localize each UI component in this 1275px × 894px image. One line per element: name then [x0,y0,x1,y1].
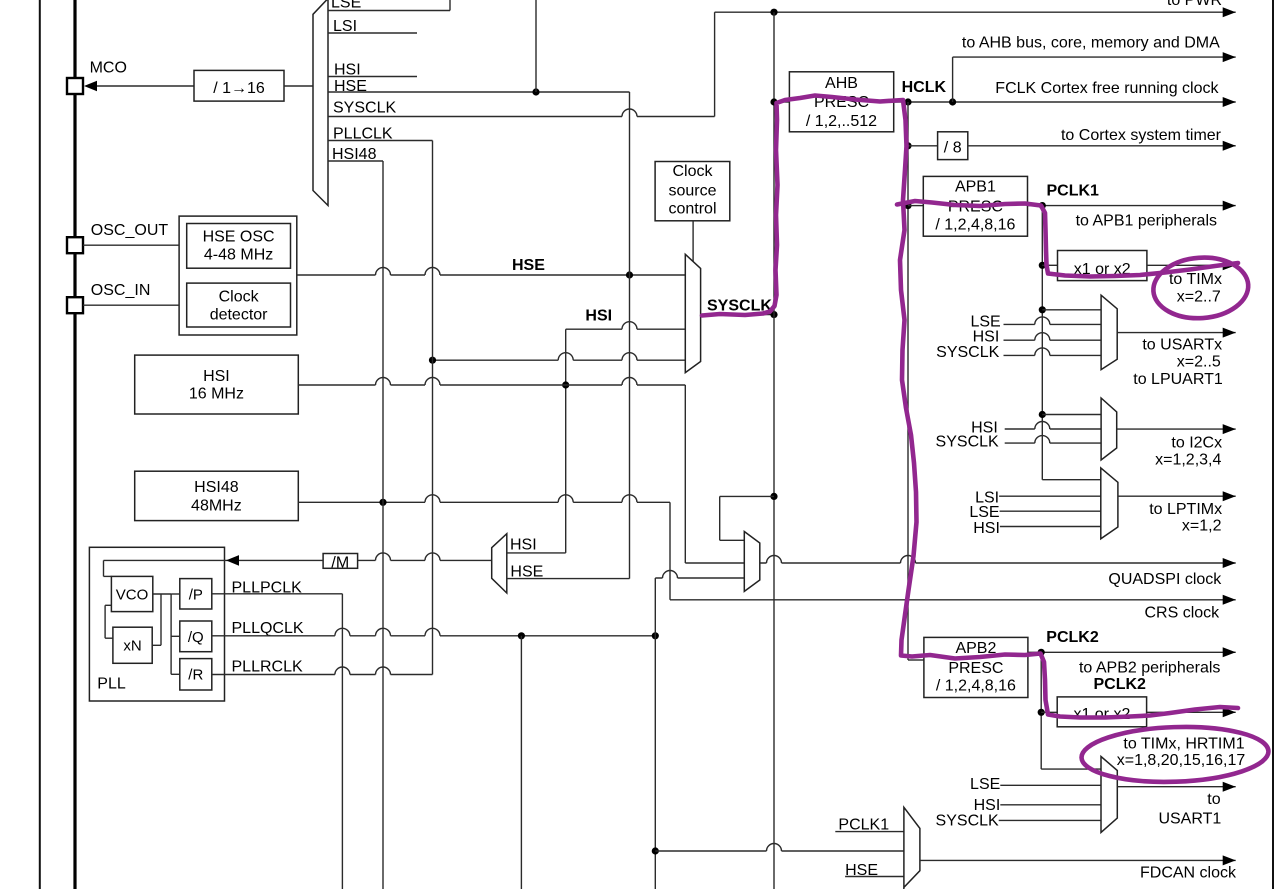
svg-text:HSI: HSI [973,329,1000,346]
node x1x2 tap [1039,262,1046,269]
svg-text:/R: /R [188,667,203,684]
label x=1,2 [1182,517,1222,534]
svg-text:x=1,2: x=1,2 [1182,517,1222,534]
svg-text:HSE: HSE [510,563,543,580]
svg-text:to USARTx: to USARTx [1142,337,1222,354]
node HSE riser junction [532,88,539,95]
wire HSI link column [565,329,567,553]
node PCLK1 junction [1039,202,1046,209]
svg-text:to TIMx, HRTIM1: to TIMx, HRTIM1 [1123,735,1244,752]
block HSI48 48MHz [135,471,299,520]
svg-text:SYSCLK: SYSCLK [936,434,999,451]
node HSE column junction [626,271,633,278]
node /8 tap [904,142,911,149]
wire HSE column [629,92,631,579]
svg-text:FCLK Cortex free running clock: FCLK Cortex free running clock [995,80,1219,97]
svg-text:48MHz: 48MHz [191,497,242,514]
svg-text:HSE OSC: HSE OSC [203,228,275,245]
wire SYSCLK jog to QUADSPI mux [720,496,774,540]
node QUADSPI tap [770,493,777,500]
svg-text:PCLK2: PCLK2 [1046,629,1099,646]
label to Cortex system timer [1061,127,1222,144]
svg-text:FDCAN clock: FDCAN clock [1140,864,1237,881]
wire HSI stub [328,76,417,78]
label to (USART1) [1207,791,1220,808]
block APB2 PRESC [924,637,1028,697]
node SYSCLK junction [770,311,777,318]
svg-text:Clock: Clock [219,288,260,305]
wire SYSCLK input [328,109,715,117]
wire PLLPCLK [212,593,343,595]
label to I2Cx [1171,434,1222,451]
svg-text:/ 1,2,4,8,16: / 1,2,4,8,16 [936,678,1016,695]
svg-text:APB1: APB1 [955,179,996,196]
wire LSE riser [449,0,451,11]
label SYSCLK (I2C mux) [936,434,999,451]
wire HSE stub FDCAN [845,876,904,878]
wire PCLK1 stub FDCAN [835,831,904,833]
block VCO [111,576,152,611]
svg-text:to LPUART1: to LPUART1 [1133,371,1223,388]
label HSE (bold net) [512,257,545,274]
wire x1x2 to TIMx [1147,260,1236,270]
svg-text:to AHB bus, core, memory and D: to AHB bus, core, memory and DMA [962,35,1220,52]
svg-text:control: control [668,201,716,218]
wire PCLK1 to LPTIM mux [1042,479,1101,481]
wire HSI main line [298,378,685,385]
svg-text:PLLRCLK: PLLRCLK [232,659,303,676]
svg-text:to APB1 peripherals: to APB1 peripherals [1076,213,1217,230]
wire USART1 out [1117,782,1235,792]
svg-text:HSI: HSI [510,537,537,554]
wire HSI stub USART [1004,333,1102,340]
label SYSCLK (bold net) [707,298,772,315]
svg-text:source: source [668,183,716,200]
block AHB PRESC [789,72,893,132]
wire PLLQ branch column [520,636,522,889]
wire control to mux [692,221,694,262]
wire HSE main line [297,268,686,276]
label HSI (USART mux) [973,329,1000,346]
wire LSI stub [328,32,417,34]
label PCLK2 second (bold) [1094,676,1147,693]
wire HCLK to APB2 presc [908,659,924,661]
wire HSI48 column [382,161,384,889]
label OSC_IN [91,282,151,299]
svg-text:Clock: Clock [672,163,713,180]
wire PLLCLK to SYSCLK mux [433,353,686,360]
wire SYSCLK output [701,314,774,316]
svg-text:HSI: HSI [973,520,1000,537]
wire PLLQ column [654,578,656,889]
svg-text:/ 8: / 8 [944,139,962,156]
label PLLQCLK [232,620,304,637]
wire VCO-xN feedback left [105,605,113,638]
label LSE (MCO mux input) [331,0,361,12]
mux MCO selector [313,0,328,206]
wire OSC_OUT to HSE group [83,244,179,246]
svg-text:PCLK2: PCLK2 [1094,676,1147,693]
node AHB input junction [770,98,777,105]
block APB1 PRESC [923,176,1027,236]
svg-text:HSI48: HSI48 [332,146,377,163]
label USART1 [1158,811,1221,828]
label LSI (LPTIM mux) [975,490,999,507]
svg-text:HSI: HSI [585,308,612,325]
wire SYSCLK stub USART1 [999,819,1101,821]
wire PCLK1 to I2C mux [1042,414,1101,416]
wire SYSCLK column [773,12,775,889]
label PLLRCLK [232,659,303,676]
wire OSC_IN to HSE group [83,304,179,306]
label HSE (PLL mux) [510,563,543,580]
node x1x2 APB2 tap [1038,709,1045,716]
svg-text:/ 1→16: / 1→16 [213,80,265,97]
svg-text:QUADSPI clock: QUADSPI clock [1108,571,1222,588]
wire LPTIMx out [1118,491,1236,501]
annotation circle to TIMx HRTIM1 [1081,724,1270,785]
block xN [113,627,152,663]
label LSE (USART1 mux) [970,776,1000,793]
wire QUADSPI clock out [760,556,1236,568]
wire I2Cx out [1117,424,1236,434]
svg-text:/Q: /Q [188,629,204,646]
wire PLLRCLK [212,667,433,675]
wire PLLQCLK [212,628,656,635]
svg-text:USART1: USART1 [1158,811,1221,828]
label LSE (LPTIM mux) [969,504,999,521]
node PCLK2 junction [1038,649,1045,656]
svg-text:HSI: HSI [974,797,1001,814]
wire PLL input feedback [104,560,112,576]
divider box /M [323,554,358,572]
wire PLL source mux to /M [358,553,492,560]
label HSI (bold net) [585,308,612,325]
label to LPTIMx [1149,501,1222,518]
wire SYSCLK stub I2C [1005,436,1101,443]
label to TIMx HRTIM1 [1123,735,1244,752]
label PLLCLK (MCO mux) [333,126,393,143]
wire HSI to SYSCLK mux [566,322,686,329]
pin OSC_IN [67,297,83,313]
wire /M to PLL with arrow [104,555,324,566]
node APB1 tap [904,202,911,209]
annotation circle to TIMx x=2..7 [1151,254,1250,321]
node PLLQCLK branch 1 [518,632,525,639]
divider /R [180,659,212,690]
svg-text:to TIMx: to TIMx [1169,271,1222,288]
label HSI (LPTIM mux) [973,520,1000,537]
mux USART1 select [1101,757,1117,833]
wire to PWR [715,7,1236,17]
block x1 or x2 (APB2) [1057,697,1146,727]
wire VCO output bus [152,594,171,674]
svg-text:to I2Cx: to I2Cx [1171,434,1222,451]
label HSI (I2C mux) [971,420,998,437]
wire HCLK column [907,102,909,660]
label to TIMx [1169,271,1222,288]
svg-text:x=1,2,3,4: x=1,2,3,4 [1155,452,1221,469]
label PCLK1 (bold) [1047,182,1100,199]
wire SYSCLK riser to PWR [714,12,716,116]
label HCLK (bold) [902,79,947,96]
wire HSI stub I2C [1005,422,1101,429]
svg-text:LSE: LSE [970,776,1000,793]
svg-text:to: to [1207,791,1220,808]
label x=1,2,3,4 [1155,452,1221,469]
label HSE (FDCAN) [845,862,878,879]
label PLLPCLK [232,580,303,597]
label to LPUART1 [1133,371,1223,388]
label LSI [333,18,357,35]
wire HSI48 main line [298,495,670,502]
svg-text:SYSCLK: SYSCLK [333,100,396,117]
wire HSI stub [1000,526,1101,528]
wire HSI feed to QUADSPI mux [685,385,744,563]
svg-text:x1 or x2: x1 or x2 [1073,706,1130,723]
block Clock detector [187,283,291,327]
mux LPTIMx select [1101,468,1118,539]
label HSI (PLL mux) [510,537,537,554]
svg-text:CRS clock: CRS clock [1145,604,1221,621]
node PLLQCLK branch 2 [652,632,659,639]
divider /P [180,579,212,609]
mux SYSCLK select [685,254,700,372]
wire HCLK to /8 [908,145,938,147]
wire PLLCLK column [432,141,434,675]
wire LSE stub [1000,510,1101,512]
label HSE (MCO mux) [334,78,367,95]
wire HCLK line [894,97,1236,107]
mux I2Cx select [1101,398,1117,460]
node HSI main junction [562,381,569,388]
label FCLK [995,80,1219,97]
label to AHB bus core memory DMA [962,35,1220,52]
wire PCLK2 to USART1 mux [1041,768,1101,770]
svg-text:to LPTIMx: to LPTIMx [1149,501,1222,518]
node PLLCLK tap junction [429,357,436,364]
wire bus to /Q [171,635,180,637]
svg-text:4-48 MHz: 4-48 MHz [204,247,273,264]
annotation highlight SYSCLK-HCLK-APB2 path [702,96,1238,718]
divider box / 1→16 [194,70,284,101]
mux PLL source select [492,534,507,593]
pin OSC_OUT [67,237,83,253]
label HSI (MCO mux) [334,62,361,79]
wire riser to AHB bus arrow [952,57,954,102]
wire HSI48 to CRS riser [669,502,671,600]
label SYSCLK (MCO mux) [333,100,396,117]
svg-text:MCO: MCO [90,60,127,77]
svg-text:/ 1,2,..512: / 1,2,..512 [806,113,877,130]
label to APB2 peripherals [1079,660,1220,677]
svg-text:SYSCLK: SYSCLK [936,344,999,361]
label CRS clock [1145,604,1221,621]
label HSI48 (MCO mux) [332,146,377,163]
mux QUADSPI select [744,532,760,592]
label FDCAN clock [1140,864,1237,881]
svg-text:to APB2 peripherals: to APB2 peripherals [1079,660,1220,677]
figure frame right border [1272,0,1274,889]
svg-text:SYSCLK: SYSCLK [936,812,999,829]
wire bus to /P [171,593,180,595]
svg-text:LSI: LSI [333,18,357,35]
wire LSI stub [999,495,1101,497]
wire to x1 or x2 [1042,264,1057,266]
pin MCO [67,78,83,94]
wire HSI into PLL mux [507,552,566,554]
label HSI (USART1 mux) [974,797,1001,814]
node SYSCLK/PWR junction [770,9,777,16]
label PCLK2 (bold) [1046,629,1099,646]
wire x1x2 to TIMx HRTIM [1147,707,1236,717]
svg-text:/M: /M [331,554,349,571]
wire PLLCLK input [328,140,433,142]
wire PCLK2 column [1040,652,1042,769]
box PLL [89,547,224,701]
figure frame left border [39,0,41,889]
label to PWR (clipped) [1167,0,1222,9]
wire SYSCLK to AHB presc [774,101,789,103]
svg-text:to PWR: to PWR [1167,0,1222,9]
wire HSI stub USART1 [1000,804,1101,806]
label OSC_OUT [91,222,169,239]
box HSE group [179,216,297,335]
svg-text:OSC_IN: OSC_IN [91,282,151,299]
mux FDCAN select [904,807,920,889]
wire divider to MCO mux [284,85,313,87]
wire PCLK1 column [1041,206,1043,480]
box Clock source control [655,162,730,221]
wire CRS clock line [670,595,1236,605]
wire MCO arrow [84,81,194,92]
svg-text:PLLQCLK: PLLQCLK [232,620,304,637]
label PLL [97,675,126,692]
svg-text:PLL: PLL [97,675,126,692]
label SYSCLK (USART mux) [936,344,999,361]
label to APB1 peripherals [1076,213,1217,230]
label MCO [90,60,127,77]
svg-text:x=1,8,20,15,16,17: x=1,8,20,15,16,17 [1117,752,1246,769]
svg-text:LSE: LSE [969,504,999,521]
wire HSE riser to top [535,0,537,92]
node USART tap [1039,306,1046,313]
wire HSI48 input [328,160,383,162]
wire LSE stub USART [1004,317,1102,325]
wire PLLQ to QUADSPI mux [655,571,744,578]
svg-text:PCLK1: PCLK1 [1047,182,1100,199]
svg-text:AHB: AHB [825,75,858,92]
svg-text:OSC_OUT: OSC_OUT [91,222,169,239]
wire LSE input [328,10,450,12]
divider box /8 [938,132,968,160]
wire to x1 or x2 APB2 [1041,711,1057,713]
node HSI48 junction [379,499,386,506]
node HCLK branch junction [904,98,911,105]
svg-text:HSI: HSI [203,368,230,385]
svg-text:HSI48: HSI48 [194,479,239,496]
annotation highlight APB1 branch [897,201,1238,277]
label to USARTx [1142,337,1222,354]
svg-text:x=2..7: x=2..7 [1177,289,1221,306]
block HSE OSC 4-48 MHz [187,224,291,269]
wire SYSCLK stub USART [1004,348,1102,355]
wire HSE into PLL mux [507,578,630,580]
label QUADSPI clock [1108,571,1222,588]
svg-text:PRESC: PRESC [948,660,1003,677]
label SYSCLK (USART1 mux) [936,812,999,829]
label LSE (USART mux) [970,314,1000,331]
wire PLLPCLK column [341,594,343,889]
svg-text:to Cortex system timer: to Cortex system timer [1061,127,1222,144]
wire HSE input [328,91,630,93]
svg-text:/P: /P [189,586,203,603]
label x=2..7 [1177,289,1221,306]
label x=2..5 [1177,354,1221,371]
wire /8 to Cortex timer [968,141,1236,151]
wire to AHB bus [953,52,1236,62]
svg-text:/ 1,2,4,8,16: / 1,2,4,8,16 [935,217,1015,234]
wire bus to /R [171,673,180,675]
mux USARTx select [1101,295,1117,369]
svg-text:VCO: VCO [116,586,149,603]
node HCLK riser junction [949,98,956,105]
svg-text:HSE: HSE [512,257,545,274]
divider /Q [180,621,212,652]
svg-text:xN: xN [123,637,141,654]
wire PCLK1 out [1028,201,1236,211]
wire HCLK to APB1 presc [908,205,923,207]
svg-text:detector: detector [210,307,268,324]
wire PCLK2 out [1028,647,1236,657]
node PLLQ FDCAN junction [652,847,659,854]
label x=1,8,20,15,16,17 [1117,752,1246,769]
block HSI 16 MHz [135,355,299,414]
wire LSE stub USART1 [1000,784,1101,786]
wire PLLQ to FDCAN [655,844,904,851]
label PCLK1 (FDCAN) [838,817,889,834]
svg-text:x=2..5: x=2..5 [1177,354,1221,371]
block x1 or x2 (APB1) [1058,251,1147,281]
svg-text:16 MHz: 16 MHz [189,386,244,403]
chip boundary line [73,0,76,889]
wire FDCAN out [920,855,1236,865]
node I2C tap [1039,411,1046,418]
svg-text:HCLK: HCLK [902,79,947,96]
wire PCLK1 to USART mux [1042,309,1101,311]
wire USARTx out [1117,328,1236,338]
